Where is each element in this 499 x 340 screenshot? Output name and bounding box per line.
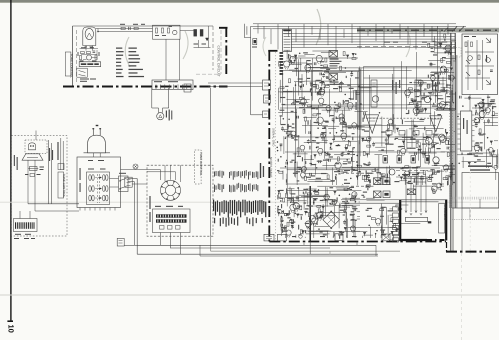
resistor Rm37 bbox=[346, 145, 348, 149]
wire into speaker box c bbox=[147, 171, 176, 173]
resistor Rm36 bbox=[359, 171, 361, 175]
capacitor Cn3 bbox=[320, 214, 323, 216]
wire bbox=[280, 216, 282, 231]
wire bbox=[320, 67, 337, 69]
transistor Qn46 bbox=[332, 199, 337, 204]
bottom bus wire 3 bbox=[137, 253, 378, 255]
label bbox=[320, 200, 323, 201]
resistor Rm103 bbox=[414, 89, 418, 91]
junction bbox=[416, 134, 417, 135]
junction bbox=[359, 171, 360, 172]
scan artifact arc b bbox=[183, 31, 188, 59]
label bbox=[368, 138, 370, 139]
transistor Qm139 bbox=[318, 148, 323, 153]
wire bbox=[301, 74, 303, 99]
wire bbox=[462, 157, 464, 168]
wire bbox=[416, 166, 418, 185]
label right cluster bbox=[194, 44, 199, 45]
label bbox=[299, 103, 304, 104]
scan artifact arc e bbox=[406, 30, 410, 57]
resistor Rm82 bbox=[387, 124, 389, 128]
driver circle Q14 bbox=[404, 171, 410, 177]
transistor Qn44 bbox=[286, 230, 291, 235]
wire bbox=[452, 174, 455, 176]
wire bbox=[298, 55, 305, 57]
resistor Rm45 bbox=[357, 165, 361, 167]
transistor Qm124 bbox=[291, 131, 296, 136]
label bbox=[277, 170, 279, 171]
left channel cap bbox=[371, 80, 377, 107]
wire bundle drop 4 bbox=[277, 24, 279, 50]
label bbox=[395, 229, 399, 230]
resistor Rm75 bbox=[372, 170, 376, 172]
wire bbox=[447, 168, 455, 170]
wire bbox=[477, 103, 496, 105]
IC U101 label bbox=[81, 63, 87, 65]
resistor Rm72 bbox=[336, 108, 338, 112]
power sw label rotated bbox=[49, 148, 50, 161]
diode Dn15 bbox=[278, 212, 281, 214]
wire bbox=[434, 37, 436, 51]
wire bbox=[380, 214, 382, 221]
power lamp label bbox=[166, 111, 167, 118]
label bbox=[288, 198, 292, 199]
speaker board dashed border bbox=[147, 165, 213, 236]
label bbox=[448, 140, 449, 144]
wire vertical run bbox=[392, 74, 394, 127]
label bbox=[443, 104, 448, 105]
wire bbox=[321, 78, 323, 87]
junction bbox=[453, 182, 454, 183]
junction bbox=[316, 147, 317, 148]
label bbox=[317, 93, 322, 94]
wire bbox=[441, 151, 455, 153]
transistor Qm152 bbox=[300, 145, 305, 150]
junction bbox=[280, 73, 281, 74]
wire bbox=[278, 112, 297, 114]
wire fan 5 bbox=[291, 47, 455, 49]
resistor Rn17 bbox=[317, 205, 321, 207]
label bbox=[417, 101, 422, 102]
label bbox=[290, 161, 293, 162]
label bbox=[312, 84, 317, 85]
label C201 bbox=[252, 47, 257, 48]
resistor Rm92 bbox=[447, 153, 449, 157]
wire bbox=[320, 212, 346, 214]
resistor Rq3 bbox=[444, 34, 446, 38]
label bbox=[469, 96, 470, 99]
capacitor Cm34 bbox=[344, 122, 347, 124]
junction bbox=[431, 147, 432, 148]
label bbox=[446, 84, 451, 85]
wire bbox=[434, 144, 436, 158]
wire bbox=[293, 153, 308, 155]
diode Dp13 bbox=[368, 180, 371, 182]
transistor Qm144 bbox=[413, 108, 419, 114]
junction bbox=[97, 31, 98, 32]
wire bbox=[294, 153, 296, 161]
capacitor Cp6 bbox=[381, 230, 383, 233]
wire bbox=[312, 50, 337, 52]
resistor Rm93 bbox=[441, 90, 445, 92]
label bbox=[302, 157, 303, 161]
wire bbox=[282, 73, 284, 95]
label bbox=[408, 183, 413, 184]
capacitor Cn16 bbox=[296, 196, 299, 198]
wire vertical run bbox=[415, 52, 417, 116]
wire bbox=[322, 109, 350, 111]
transistor Qr18 bbox=[474, 145, 480, 151]
wire bbox=[278, 88, 280, 110]
wire bbox=[317, 105, 319, 125]
label bbox=[298, 234, 301, 235]
label bbox=[399, 146, 404, 147]
label bbox=[437, 170, 440, 171]
label bbox=[326, 76, 329, 77]
label bbox=[287, 192, 288, 195]
label bbox=[480, 148, 481, 151]
wire bbox=[404, 173, 406, 185]
notes table dense rows bbox=[213, 200, 214, 211]
transistor Qm146 bbox=[339, 117, 344, 122]
label bbox=[334, 171, 339, 172]
wire bbox=[374, 233, 376, 238]
wire bbox=[316, 230, 329, 232]
junction bbox=[459, 163, 460, 164]
label bbox=[352, 147, 353, 150]
wire bbox=[289, 187, 291, 194]
wire bbox=[283, 90, 311, 92]
wire bbox=[389, 166, 391, 183]
label bbox=[426, 136, 431, 137]
label bbox=[447, 181, 448, 186]
wire bbox=[474, 121, 480, 123]
diode Dm76 bbox=[402, 141, 405, 143]
resistor Rn36 bbox=[318, 209, 320, 213]
bridge rectifier cross bbox=[327, 216, 335, 224]
transistor Qq19 bbox=[440, 102, 446, 108]
right channel labels bbox=[432, 80, 433, 90]
wire bbox=[425, 148, 427, 158]
wire bbox=[416, 128, 443, 130]
label bbox=[300, 82, 303, 83]
label bbox=[303, 52, 308, 53]
wire bbox=[435, 89, 437, 103]
control board border dash-dot top stub bbox=[219, 27, 228, 29]
junction bbox=[357, 155, 358, 156]
resistor Rm74 bbox=[305, 117, 307, 121]
label bbox=[293, 219, 294, 223]
phones jack box bottom edge bbox=[399, 239, 427, 241]
label bbox=[351, 157, 352, 161]
transistor Qq16 bbox=[440, 66, 446, 72]
label bbox=[305, 208, 308, 209]
junction bbox=[440, 184, 441, 185]
wire horizontal run bbox=[287, 190, 362, 192]
label bbox=[310, 82, 313, 83]
relay RY2 bbox=[329, 74, 338, 81]
wire bbox=[295, 106, 297, 128]
left channel transistor bbox=[372, 96, 378, 102]
label bbox=[419, 90, 422, 91]
wire bbox=[314, 205, 333, 207]
wire bundle top 4 bbox=[283, 33, 455, 35]
resistor Rn30 bbox=[291, 220, 293, 224]
power bus vertical b bbox=[452, 55, 454, 251]
label bbox=[281, 204, 282, 208]
resistor Rn31 bbox=[284, 214, 288, 216]
wire bbox=[288, 188, 294, 190]
bottom component box e bbox=[394, 235, 400, 241]
speaker pin 5 bbox=[393, 232, 399, 236]
wire bbox=[294, 161, 296, 176]
resistor Rm44 bbox=[345, 101, 349, 103]
unswitched label rotated bbox=[80, 168, 81, 180]
speaker pin 1 bbox=[393, 207, 399, 211]
connector CN201 pins bbox=[284, 30, 291, 32]
label bbox=[329, 156, 333, 157]
op-amp U3 inner marks bbox=[432, 118, 440, 120]
label bbox=[487, 149, 489, 150]
label bbox=[317, 221, 318, 225]
wire bbox=[310, 120, 312, 143]
label bbox=[403, 178, 405, 179]
label bbox=[416, 109, 420, 110]
wire bbox=[295, 111, 297, 140]
label bbox=[433, 103, 434, 105]
label bbox=[325, 71, 328, 72]
resistor Rn26 bbox=[350, 199, 354, 201]
wire bbox=[322, 164, 336, 166]
capacitor Cm110 bbox=[296, 116, 298, 119]
wire runner to pin boxes bbox=[250, 26, 252, 115]
label bbox=[483, 133, 486, 134]
junction bbox=[286, 160, 287, 161]
label bbox=[352, 208, 357, 209]
capacitor Cm117 bbox=[319, 73, 321, 76]
capacitor Cm21 bbox=[307, 140, 310, 142]
transformer secondary box bbox=[462, 173, 499, 209]
wire bbox=[295, 109, 297, 136]
wire bbox=[353, 91, 355, 100]
label bbox=[326, 69, 330, 70]
wire bbox=[475, 156, 498, 158]
wire bundle drop 5 bbox=[288, 26, 290, 36]
resistor Rq13 bbox=[444, 70, 448, 72]
wire bbox=[446, 69, 448, 88]
switch label box bbox=[58, 164, 64, 170]
diode Dm60 bbox=[346, 55, 349, 57]
label bbox=[351, 219, 354, 220]
wire bbox=[398, 139, 425, 141]
wire bbox=[298, 59, 300, 86]
wire bbox=[445, 167, 455, 169]
junction bbox=[331, 75, 332, 76]
label bbox=[294, 101, 299, 102]
label bbox=[375, 168, 376, 171]
wire into speaker box b bbox=[132, 183, 147, 185]
label bbox=[358, 126, 360, 127]
transformer T1 core bbox=[97, 174, 99, 203]
junction bbox=[285, 166, 286, 167]
resistor Rm106 bbox=[423, 170, 425, 174]
label bbox=[349, 88, 354, 89]
transistor Qm137 bbox=[339, 114, 344, 119]
wire bbox=[322, 139, 328, 141]
label bbox=[291, 227, 294, 228]
transistor Qm130 bbox=[438, 103, 443, 108]
inter-triangle resistor d bbox=[426, 131, 432, 136]
dotted rail lower bbox=[452, 219, 499, 221]
wire bbox=[306, 233, 330, 235]
label bbox=[290, 219, 292, 220]
label bbox=[440, 98, 443, 99]
junction bbox=[308, 227, 309, 228]
resistor Rm17 bbox=[279, 171, 283, 173]
resistor Rm64 bbox=[324, 65, 328, 67]
connector CN101 labels bbox=[154, 81, 162, 82]
label bbox=[487, 163, 491, 164]
wire bbox=[404, 134, 406, 150]
label bbox=[313, 198, 318, 199]
junction bbox=[487, 137, 488, 138]
junction bbox=[317, 218, 318, 219]
relay RY1 label bbox=[330, 59, 339, 60]
indicator tube V101 bulb bbox=[85, 28, 93, 39]
wire horizontal run bbox=[338, 86, 401, 88]
wire bundle top 3 bbox=[253, 28, 456, 30]
capacitor C301 bbox=[490, 69, 493, 71]
label bbox=[432, 85, 437, 86]
resistor R111 bbox=[200, 30, 203, 37]
wire bbox=[479, 117, 492, 119]
label bbox=[433, 85, 437, 86]
resistor Rq9 bbox=[447, 61, 451, 63]
label bbox=[387, 174, 388, 179]
wire bbox=[377, 169, 379, 185]
wire bbox=[279, 80, 281, 103]
transistor Qm135 bbox=[319, 98, 324, 103]
diode Dq2 bbox=[439, 44, 442, 46]
wire bbox=[436, 103, 443, 105]
wire bbox=[352, 230, 361, 232]
notes table lower rows bbox=[214, 218, 215, 223]
wire bbox=[347, 219, 349, 238]
junction bbox=[356, 161, 357, 162]
wire horizontal run bbox=[353, 89, 450, 91]
label bbox=[299, 107, 304, 108]
label bbox=[419, 145, 420, 147]
junction bbox=[345, 94, 346, 95]
wire bbox=[287, 98, 310, 100]
wire bbox=[483, 121, 498, 123]
label bbox=[420, 111, 423, 112]
wire bbox=[342, 126, 364, 128]
wire bbox=[387, 134, 389, 143]
wire bbox=[333, 119, 335, 143]
IC regulator U301 bbox=[461, 111, 472, 151]
wire bbox=[328, 89, 330, 118]
bottom bus grey step bbox=[329, 251, 331, 254]
junction bbox=[347, 159, 348, 160]
label bbox=[294, 202, 298, 203]
grey dotted stub box bbox=[448, 48, 461, 58]
junction bbox=[291, 103, 292, 104]
power board dash-dot bottom right bbox=[446, 251, 499, 253]
junction bbox=[290, 202, 291, 203]
label bbox=[412, 101, 417, 102]
label bbox=[364, 131, 369, 132]
transistor Qn43 bbox=[312, 218, 318, 224]
wire bbox=[444, 58, 456, 60]
label bbox=[352, 206, 357, 207]
wire bbox=[380, 235, 382, 238]
resistor Rm8 bbox=[286, 132, 290, 134]
wire bbox=[342, 197, 360, 199]
capacitor Cm108 bbox=[350, 73, 353, 75]
wire vertical run bbox=[311, 70, 313, 160]
inter-triangle resistor b bbox=[399, 131, 405, 136]
main board grey dotted inner left bbox=[275, 52, 277, 240]
label bbox=[313, 200, 314, 205]
wire bbox=[482, 100, 484, 116]
faint fold line upper bbox=[0, 201, 499, 203]
label bbox=[288, 131, 290, 132]
diode Dm95 bbox=[345, 147, 348, 149]
label bbox=[420, 178, 424, 179]
pin header J2 bbox=[264, 95, 271, 103]
wire bbox=[419, 95, 443, 97]
label bbox=[446, 89, 447, 94]
capacitor C102 bbox=[128, 27, 130, 30]
resistor R103 bbox=[80, 56, 82, 60]
wire outlet drop b bbox=[34, 160, 36, 211]
capacitor Cm78 bbox=[301, 84, 303, 87]
label bbox=[321, 173, 326, 174]
transistor Qm151 bbox=[302, 166, 307, 171]
label bbox=[382, 131, 386, 132]
wire bbox=[326, 158, 351, 160]
wire bbox=[406, 129, 408, 151]
faint crease upper bbox=[469, 163, 471, 254]
control board border dash-dot right bbox=[225, 27, 227, 74]
label bbox=[351, 211, 354, 212]
label bbox=[297, 167, 301, 168]
main board dash-dot top stub bbox=[268, 50, 277, 52]
wire bbox=[408, 104, 436, 106]
wire bbox=[304, 54, 314, 56]
wire switch to right bbox=[128, 178, 137, 180]
label bbox=[340, 130, 344, 131]
label bbox=[314, 122, 319, 123]
wire bbox=[346, 212, 348, 237]
pin header J3 bbox=[263, 111, 269, 118]
label bbox=[324, 121, 329, 122]
label bbox=[431, 51, 435, 52]
label bbox=[334, 135, 335, 140]
wire bbox=[446, 144, 455, 146]
junction bbox=[295, 213, 296, 214]
power board corner vertical bbox=[446, 242, 448, 252]
power switch S1 box bbox=[119, 176, 129, 192]
junction bbox=[285, 138, 286, 139]
label bbox=[363, 196, 365, 197]
label bbox=[416, 90, 421, 91]
label bbox=[292, 127, 295, 128]
wire bbox=[420, 83, 444, 85]
junction bbox=[278, 206, 279, 207]
wire vertical run bbox=[357, 72, 359, 186]
